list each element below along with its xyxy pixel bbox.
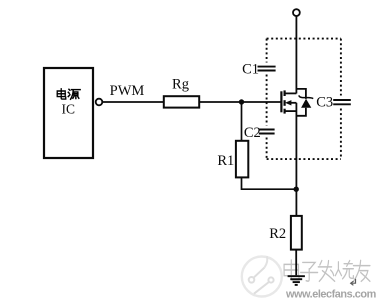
watermark text 电子发烧友 [284,260,370,281]
pin circle on IC [96,99,103,106]
MOSFET Q1 source stub [285,110,297,112]
MOSFET Q1 gate bar [280,91,282,112]
capacitor C1 [258,67,276,71]
svg-text:C1: C1 [242,62,259,78]
电 [284,260,299,280]
svg-text:PWM: PWM [110,83,145,99]
resistor R2 [291,216,302,250]
wire R1 bottom to source rail [242,177,297,189]
body diode branch top wire [296,89,306,99]
svg-text:R2: R2 [269,226,286,242]
烧 [335,261,353,279]
svg-text:C2: C2 [244,125,261,141]
junction node gate [239,99,244,104]
power IC box [44,68,93,158]
resistor R1 [236,141,248,178]
capacitor C2 [259,130,275,134]
wire R2 to ground [295,250,297,276]
MOSFET Q1 channel segments [284,90,286,113]
MOSFET Q1 body stub with arrow [288,102,296,104]
watermark logo (elecfans) [242,256,282,296]
wire pin to Rg [102,101,164,103]
dashed box around MOSFET [267,39,341,160]
junction node source/R2 [294,187,299,192]
terminal circle top [293,9,300,16]
子 [301,262,318,281]
capacitor C3 [333,100,351,104]
发 [318,261,334,282]
resistor Rg [164,96,199,107]
svg-text:IC: IC [62,102,76,117]
svg-text:Rg: Rg [172,77,189,93]
body diode cathode bar [299,95,313,98]
友 [353,260,369,281]
svg-text:C3: C3 [316,94,333,110]
body diode triangle [301,99,311,108]
text 电源 (drawn strokes) [57,89,80,99]
wire source rail vertical [295,103,297,216]
ground [288,276,305,285]
svg-text:R1: R1 [217,153,234,169]
watermark return-cursor [351,279,356,286]
MOSFET Q1 drain stub [285,92,297,94]
wire drain vertical [295,16,297,94]
wire Rg to gate [199,101,280,103]
wire junction down to R1 [241,102,243,141]
svg-text:www.elecfans.com: www.elecfans.com [285,289,377,301]
body diode bottom wire [296,108,306,116]
